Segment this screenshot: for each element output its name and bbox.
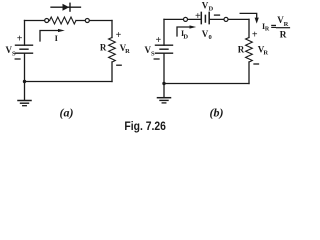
svg-text:Fig. 7.26: Fig. 7.26	[124, 121, 165, 133]
svg-text:D: D	[209, 5, 214, 12]
svg-text:R: R	[100, 43, 107, 53]
svg-text:D: D	[183, 33, 188, 40]
svg-text:(a): (a)	[60, 106, 74, 120]
svg-text:+: +	[17, 34, 23, 45]
svg-text:R: R	[265, 27, 270, 33]
svg-text:S: S	[151, 51, 155, 58]
svg-text:(b): (b)	[210, 106, 224, 120]
svg-text:R: R	[238, 44, 245, 54]
svg-text:+: +	[252, 30, 258, 41]
svg-text:R: R	[263, 49, 268, 56]
svg-text:S: S	[12, 51, 16, 58]
svg-text:I: I	[55, 33, 59, 43]
svg-text:R: R	[284, 21, 289, 28]
svg-text:R: R	[280, 31, 287, 41]
svg-text:R: R	[125, 48, 130, 55]
svg-text:0: 0	[209, 34, 212, 41]
svg-text:+: +	[195, 11, 201, 22]
svg-text:+: +	[156, 35, 162, 46]
svg-text:+: +	[116, 30, 122, 41]
